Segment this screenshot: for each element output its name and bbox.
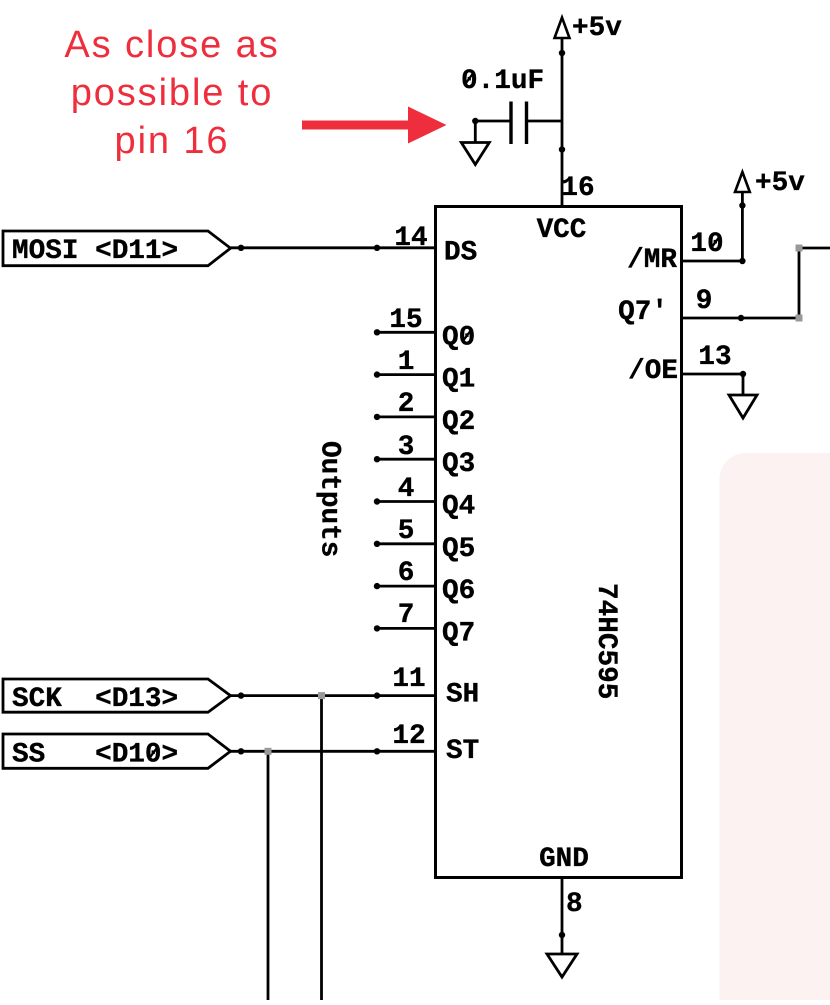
wire cap right (527, 120, 563, 123)
svg-text:/MR: /MR (627, 245, 677, 276)
svg-text:possible to: possible to (71, 72, 274, 114)
ground (near capacitor) (461, 143, 489, 165)
node pin14 end (374, 245, 380, 251)
pin 1 Q1 (374, 347, 475, 396)
node after SCK flag (238, 692, 244, 698)
svg-text:7: 7 (398, 600, 415, 631)
op-amp U1 body 74HC595 (436, 207, 682, 878)
node pin 5 end (374, 541, 380, 547)
node pin 15 end (374, 329, 380, 335)
svg-text:Q0: Q0 (442, 322, 475, 353)
svg-text:MOSI <D11>: MOSI <D11> (12, 236, 178, 267)
ground (near /OE) (729, 395, 757, 418)
svg-text:15: 15 (389, 305, 422, 336)
svg-text:pin 16: pin 16 (115, 120, 230, 162)
svg-text:Q6: Q6 (442, 576, 475, 607)
wire Q7' vertical riser (798, 248, 801, 318)
node on +5v wire (739, 202, 745, 208)
node cap-gnd corner (472, 118, 478, 124)
svg-text:ST: ST (446, 736, 479, 767)
svg-text:13: 13 (698, 342, 731, 373)
svg-text:SCK <D13>: SCK <D13> (12, 684, 178, 715)
svg-text:Q3: Q3 (442, 449, 475, 480)
pin 15 Q0 (374, 305, 475, 353)
node after SS flag (238, 748, 244, 754)
wire pin 5 stub (377, 542, 436, 545)
svg-text:DS: DS (444, 238, 477, 269)
node pin 6 end (374, 583, 380, 589)
node junction below cap (559, 146, 565, 152)
node pin12 end (374, 748, 380, 754)
svg-text:Q7': Q7' (618, 297, 668, 328)
svg-text:/OE: /OE (628, 356, 678, 387)
wire /MR horizontal (682, 260, 743, 263)
svg-text:Q5: Q5 (442, 534, 475, 565)
svg-text:11: 11 (392, 664, 425, 695)
junction handle (gray) on SS wire (265, 748, 272, 755)
svg-text:16: 16 (561, 173, 594, 204)
wire MOSI to DS (231, 246, 436, 249)
node pin 4 end (374, 498, 380, 504)
svg-text:2: 2 (398, 389, 415, 420)
svg-text:12: 12 (392, 721, 425, 752)
node after MOSI flag (238, 245, 244, 251)
svg-text:SH: SH (446, 680, 479, 711)
node /MR corner (739, 258, 745, 264)
net flag SS (D10) (3, 734, 231, 768)
wire pin 7 stub (377, 627, 436, 630)
handle (gray) bottom corner (796, 315, 803, 322)
node pin 3 end (374, 456, 380, 462)
pin 3 Q3 (374, 432, 475, 480)
highlight panel (pink rounded rectangle, right side) (720, 453, 830, 1005)
power +5v (top) (555, 18, 570, 39)
wire pin 6 stub (377, 585, 436, 588)
svg-text:Q7: Q7 (442, 618, 475, 649)
pin 4 Q4 (374, 474, 475, 523)
svg-text:3: 3 (398, 432, 415, 463)
svg-text:4: 4 (398, 474, 415, 505)
ground (below IC) (547, 954, 577, 977)
annotation red arrow (302, 107, 447, 144)
svg-text:10: 10 (690, 229, 723, 260)
svg-text:GND: GND (539, 844, 589, 875)
wire Q7' horizontal (682, 317, 800, 320)
svg-text:14: 14 (394, 223, 427, 254)
node pin 1 end (374, 371, 380, 377)
svg-text:5: 5 (398, 516, 415, 547)
svg-text:Q2: Q2 (442, 407, 475, 438)
pin 7 Q7 (374, 600, 475, 649)
wire SCK vertical drop (320, 696, 323, 1000)
net flag SCK (D13) (3, 679, 231, 712)
wire pin 15 stub (377, 331, 436, 334)
wire Q7' exit right (799, 247, 830, 250)
svg-text:Outputs: Outputs (314, 441, 345, 557)
node pin 2 end (374, 414, 380, 420)
wire cap left (475, 120, 511, 123)
node /OE end (740, 371, 746, 377)
pin 5 Q5 (374, 516, 475, 565)
wire /OE horizontal (682, 373, 744, 376)
wire pin 4 stub (377, 500, 436, 503)
power +5v (right) (735, 172, 750, 192)
svg-text:+5v: +5v (755, 168, 805, 199)
svg-text:Q4: Q4 (442, 492, 475, 523)
svg-text:+5v: +5v (572, 13, 622, 44)
node on Q7' wire (738, 315, 744, 321)
svg-text:VCC: VCC (537, 215, 587, 246)
svg-text:6: 6 (398, 558, 415, 589)
wire SCK to SH (231, 694, 436, 697)
svg-text:As close as: As close as (64, 24, 279, 66)
wire pin 3 stub (377, 458, 436, 461)
wire VCC vertical (561, 38, 564, 207)
node pin11 end (374, 692, 380, 698)
node pin 7 end (374, 625, 380, 631)
wire /OE gnd stub (742, 374, 745, 395)
svg-text:9: 9 (696, 286, 713, 317)
wire SS to ST (231, 750, 436, 753)
svg-text:Q1: Q1 (442, 365, 475, 396)
svg-text:74HC595: 74HC595 (590, 583, 621, 699)
wire SS vertical drop (267, 751, 270, 1000)
junction handle (gray) on SCK wire (318, 692, 325, 699)
svg-text:8: 8 (566, 889, 583, 920)
node on GND wire (559, 932, 565, 938)
wire pin 1 stub (377, 373, 436, 376)
value label slashed zero (465, 72, 475, 85)
pin 6 Q6 (374, 558, 475, 607)
wire GND vertical (561, 878, 564, 955)
wire gnd stub (474, 121, 477, 143)
svg-text:1: 1 (398, 347, 415, 378)
pin 2 Q2 (374, 389, 475, 438)
node junction top (559, 50, 565, 56)
wire /MR vertical (741, 192, 744, 261)
handle (gray) top corner (796, 245, 803, 252)
svg-text:0.1uF: 0.1uF (461, 66, 544, 97)
net flag MOSI (D11) (3, 231, 231, 266)
svg-text:SS <D10>: SS <D10> (12, 740, 178, 771)
wire pin 2 stub (377, 415, 436, 418)
